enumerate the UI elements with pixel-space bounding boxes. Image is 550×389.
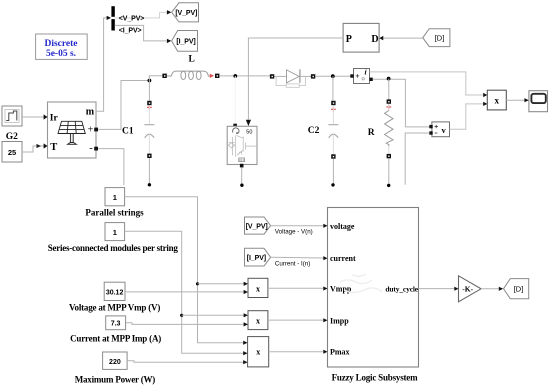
product block x1	[244, 278, 268, 297]
svg-text:D: D	[371, 34, 378, 45]
capacitor C2	[328, 76, 338, 183]
svg-text:-K-: -K-	[462, 285, 473, 294]
gain -K-	[459, 276, 482, 302]
wire parallel to products	[125, 197, 244, 343]
svg-text:[V_PV]: [V_PV]	[175, 10, 197, 17]
svg-text:1: 1	[113, 193, 117, 202]
goto tag [I_PV]	[167, 31, 198, 52]
wire series to products	[125, 231, 244, 353]
svg-text:50: 50	[246, 129, 252, 135]
wire x2 to fuzzy	[268, 319, 323, 321]
svg-text:Impp: Impp	[330, 316, 349, 325]
svg-text:R: R	[368, 128, 375, 138]
node series branch	[180, 314, 183, 317]
snubber	[276, 76, 305, 85]
wire 7.3 to x2	[126, 323, 244, 325]
red arrow on inductor	[210, 74, 214, 78]
current measurement i	[350, 67, 373, 83]
svg-text:[I_PV]: [I_PV]	[247, 255, 266, 262]
svg-text:Voltage at MPP Vmp (V): Voltage at MPP Vmp (V)	[69, 303, 160, 313]
igbt symbol	[228, 135, 257, 157]
svg-text:Parallel strings: Parallel strings	[85, 208, 144, 218]
constant 1 parallel	[105, 188, 125, 206]
PWM generator block	[343, 23, 383, 52]
pin Ir arrow	[44, 114, 48, 119]
wire i out to node	[373, 79, 430, 127]
faint watermark scribbles	[340, 274, 382, 293]
resistor R	[385, 79, 393, 185]
product block X	[483, 90, 506, 110]
svg-text:Current - I(n): Current - I(n)	[275, 261, 310, 268]
svg-text:[V_PV]: [V_PV]	[246, 223, 268, 230]
node R bottom	[387, 184, 390, 187]
wire P to IGBT gate	[248, 38, 343, 119]
node IGBT bottom	[240, 184, 243, 187]
svg-text:Current at MPP Imp (A): Current at MPP Imp (A)	[70, 333, 161, 343]
svg-text:220: 220	[109, 359, 121, 366]
product block x2	[244, 311, 268, 330]
svg-text:G2: G2	[6, 132, 18, 142]
svg-text:Ir: Ir	[50, 113, 59, 123]
node junction C1 top	[148, 79, 152, 83]
pin T arrow	[44, 143, 48, 148]
svg-text:C1: C1	[122, 127, 134, 137]
wire gain to [D]	[481, 288, 499, 290]
wire node to IGBT (faint)	[234, 76, 236, 124]
from tag [D] top	[423, 29, 450, 47]
circular arrow icon	[233, 128, 239, 133]
wire diode to i sensor	[315, 75, 350, 77]
gate arrow	[246, 120, 251, 126]
svg-text:Discrete: Discrete	[44, 39, 77, 49]
capacitor C1	[144, 81, 154, 184]
node C2 top	[331, 74, 335, 78]
wire m to bus selector	[96, 18, 106, 111]
node R top	[387, 77, 391, 81]
svg-text:C2: C2	[308, 126, 320, 136]
bus selector	[111, 6, 114, 30]
svg-text:Voltage - V(n): Voltage - V(n)	[275, 229, 313, 236]
from tag [V_PV]	[245, 217, 271, 234]
svg-text:Pmax: Pmax	[330, 348, 350, 357]
svg-text:Fuzzy Logic Subsystem: Fuzzy Logic Subsystem	[332, 372, 419, 382]
wire PV+ to node	[98, 81, 149, 130]
wire v signal to product	[450, 104, 483, 129]
svg-text:30.12: 30.12	[106, 289, 124, 296]
svg-text:L: L	[189, 55, 195, 65]
goto tag [D] bottom	[504, 279, 529, 299]
svg-text:5e-05 s.: 5e-05 s.	[46, 49, 76, 59]
wire X to scope	[506, 99, 524, 101]
wire i signal to product	[370, 72, 484, 95]
svg-text:+: +	[88, 125, 94, 136]
svg-text:1: 1	[113, 228, 117, 237]
constant 7.3	[106, 316, 126, 330]
svg-text:duty_cycle: duty_cycle	[385, 285, 418, 294]
signal builder block G2	[2, 106, 22, 126]
svg-text:25: 25	[8, 148, 16, 157]
node parallel branch	[196, 282, 199, 285]
wire 30.12 to x1	[125, 291, 243, 293]
svg-text:-: -	[89, 143, 92, 154]
wire v- down	[405, 133, 429, 185]
wire V_PV from bus	[115, 12, 167, 18]
wire 25 to T	[22, 146, 44, 152]
solar panel icon	[58, 121, 85, 144]
svg-text:current: current	[330, 254, 356, 263]
product block x3	[243, 337, 269, 367]
svg-text:<I_PV>: <I_PV>	[119, 28, 142, 35]
svg-text:[D]: [D]	[435, 33, 445, 42]
node C1 bottom	[148, 183, 151, 186]
svg-text:Maximum Power (W): Maximum Power (W)	[75, 374, 156, 384]
wire [V_PV] to fuzzy	[271, 225, 324, 227]
svg-text:[D]: [D]	[514, 285, 524, 294]
svg-text:T: T	[50, 142, 57, 153]
node junction IGBT top	[233, 74, 237, 78]
svg-text:[I_PV]: [I_PV]	[176, 39, 195, 46]
pin - port square	[94, 147, 98, 151]
diode D1	[270, 69, 315, 87]
IGBT block	[227, 120, 257, 168]
Fuzzy Logic Subsystem block	[323, 208, 419, 368]
svg-text:7.3: 7.3	[111, 321, 121, 328]
powergui block Discrete 5e-05 s.	[36, 34, 88, 59]
pin + port square	[94, 128, 98, 132]
svg-text:x: x	[495, 96, 500, 106]
constant 220	[103, 352, 128, 369]
wire IGBT down	[241, 167, 243, 184]
constant 1 series	[105, 223, 125, 241]
PV array block U_PV	[44, 102, 98, 158]
scope	[529, 91, 548, 112]
inductor L	[162, 71, 219, 80]
wire x1 to fuzzy	[268, 287, 323, 289]
svg-text:P: P	[346, 34, 352, 45]
svg-text:x: x	[256, 316, 260, 325]
wire [I_PV] to fuzzy	[271, 256, 324, 259]
wire PV- down	[98, 149, 124, 186]
wire fuzzy to gain	[419, 288, 455, 290]
wire inductor to diode	[219, 75, 270, 77]
wire parallel branch to x1	[198, 283, 244, 285]
voltage measurement v	[429, 122, 449, 137]
svg-text:x: x	[256, 348, 260, 357]
wire [D] to PWM	[383, 37, 422, 39]
wire I_PV from bus	[115, 25, 167, 41]
svg-text:Series-connected modules per s: Series-connected modules per string	[48, 243, 179, 253]
wire series branch to x2	[182, 314, 244, 316]
constant 25	[2, 142, 22, 163]
wire node up to inductor	[149, 76, 162, 81]
goto tag [V_PV]	[167, 3, 199, 22]
svg-text:x: x	[256, 284, 260, 293]
svg-text:<V_PV>: <V_PV>	[119, 16, 144, 23]
bottom small icon	[239, 158, 245, 162]
node C2 bottom	[331, 183, 334, 186]
svg-text:voltage: voltage	[330, 222, 355, 231]
wire x3 to fuzzy	[269, 351, 324, 353]
constant 30.12	[104, 282, 125, 300]
wire G2 to Ir	[22, 116, 44, 118]
wire 220 to x3	[127, 361, 243, 362]
from tag [I_PV]	[245, 248, 271, 266]
svg-text:m: m	[86, 106, 95, 117]
